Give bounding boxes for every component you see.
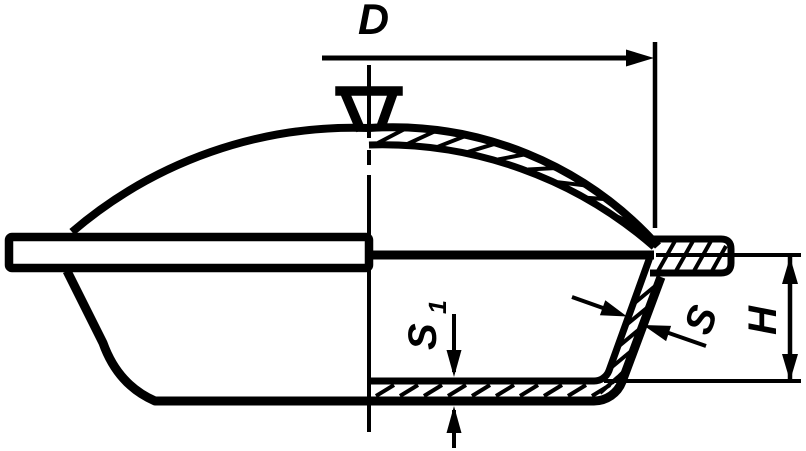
lid inner arc (section): [369, 145, 654, 247]
label S (rotated): [683, 303, 718, 337]
label H (rotated): [748, 305, 776, 334]
vertical centerline (dash-dot upper part): [367, 65, 371, 250]
vertical centerline (lower part): [367, 259, 371, 432]
dimension D: dimension line with right arrow: [322, 56, 640, 61]
dimension S: leader with arrows pointing at wall: [572, 297, 610, 311]
label S1 (rotated): [408, 301, 446, 349]
lid outer arc: [72, 127, 658, 246]
pan inner bottom line + inner wall (section): [369, 257, 650, 381]
dimension S1: vertical line with arrows: [452, 314, 456, 448]
wall section hatching: [608, 282, 660, 383]
dimension H: top extension line: [656, 253, 801, 257]
bottom band hatching: [376, 377, 618, 396]
handle: [9, 237, 369, 268]
pan outer contour: left wall, bottom, right outer wall (section): [67, 271, 661, 401]
label D: [359, 4, 388, 34]
dimension H: bottom extension line: [604, 379, 801, 383]
rim flange (section): [650, 239, 731, 273]
dimension H: dimension line with arrows: [788, 257, 793, 381]
lid knob: [340, 91, 398, 126]
pan rim top line (section): [369, 251, 654, 260]
rim flange hatching: [658, 241, 726, 271]
lid section hatching: [378, 129, 634, 223]
dimension D: extension line: [653, 42, 658, 228]
